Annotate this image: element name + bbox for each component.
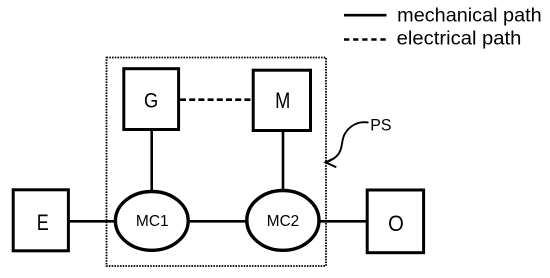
legend dashed line (electrical path sample) bbox=[344, 38, 387, 41]
svg-text:mechanical path: mechanical path bbox=[397, 5, 542, 26]
clutch MC2 (ellipse) bbox=[247, 191, 319, 251]
wire MC1 to MC2 bbox=[187, 220, 248, 223]
box G (generator) bbox=[124, 69, 179, 130]
clutch MC1 (ellipse) bbox=[115, 192, 188, 251]
wire G to MC1 bbox=[150, 131, 153, 191]
svg-text:MC1: MC1 bbox=[136, 213, 169, 230]
power-split unit boundary PS (dotted rectangle) bbox=[107, 58, 327, 267]
electrical path G to M (dashed wire) bbox=[180, 98, 252, 101]
svg-text:MC2: MC2 bbox=[267, 213, 299, 230]
leader arrow from PS to boundary bbox=[326, 122, 368, 162]
wire MC2 to O bbox=[318, 220, 368, 223]
wire E to MC1 bbox=[68, 220, 117, 223]
wire M to MC2 bbox=[282, 130, 285, 190]
box M (motor) bbox=[253, 70, 310, 130]
svg-text:O: O bbox=[388, 211, 404, 236]
svg-text:G: G bbox=[144, 90, 158, 113]
svg-text:electrical path: electrical path bbox=[397, 29, 522, 50]
legend solid line (mechanical path sample) bbox=[344, 14, 387, 17]
svg-text:E: E bbox=[37, 210, 49, 235]
box O (output) bbox=[367, 190, 423, 253]
box E (input) bbox=[13, 190, 68, 251]
svg-text:M: M bbox=[275, 88, 290, 113]
arrowhead bbox=[326, 158, 337, 168]
svg-text:PS: PS bbox=[370, 115, 391, 134]
